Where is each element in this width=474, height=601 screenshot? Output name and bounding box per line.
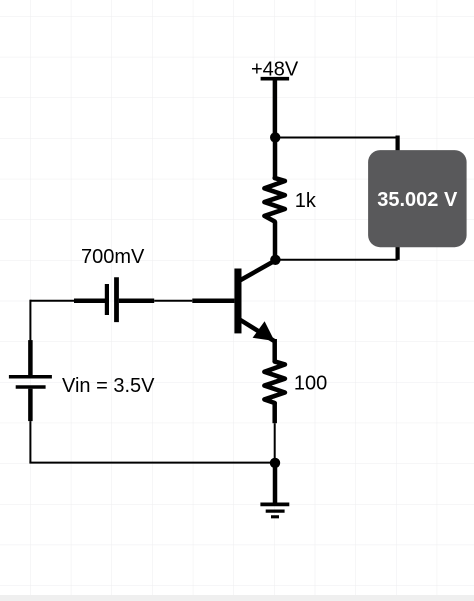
- svg-text:1k: 1k: [295, 190, 317, 212]
- svg-text:Vin = 3.5V: Vin = 3.5V: [62, 375, 155, 397]
- svg-text:100: 100: [294, 372, 327, 394]
- svg-text:35.002 V: 35.002 V: [377, 189, 458, 211]
- svg-text:700mV: 700mV: [81, 246, 145, 268]
